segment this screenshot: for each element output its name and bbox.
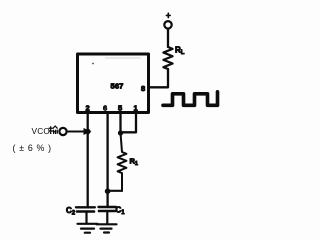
svg-text:VCO: VCO — [32, 126, 51, 136]
wire RL to pin 8 — [150, 69, 168, 87]
node junction at pin-2 wire — [85, 129, 90, 134]
wire VCO terminal to pin-2 wire with arrowhead — [67, 131, 84, 133]
resistor RL — [163, 47, 172, 69]
svg-text:RL: RL — [175, 46, 185, 57]
label VCO input (Chinese) — [32, 126, 58, 136]
svg-text:R1: R1 — [130, 157, 138, 168]
wire R1 bottom to pin-6 wire — [108, 190, 122, 192]
wire pin 5 down — [119, 114, 121, 133]
wire pin 6 down to C1 — [106, 114, 108, 207]
capacitor C2 — [76, 207, 95, 223]
svg-text:6: 6 — [103, 104, 107, 113]
svg-text:2: 2 — [86, 104, 90, 113]
wire supply to RL — [167, 29, 169, 47]
scan speckles — [92, 58, 141, 65]
svg-text:C2: C2 — [66, 206, 76, 217]
node junction pins 5+1 — [118, 130, 123, 135]
ground under C1 — [97, 224, 117, 232]
resistor R1 — [118, 133, 127, 191]
hand-drawn CJK glyph — [48, 126, 57, 134]
output square wave symbol — [163, 92, 218, 106]
node junction on pin-6 wire — [105, 188, 111, 194]
wire pin 2 down to C2 — [87, 114, 89, 207]
ground under C2 — [78, 224, 98, 233]
op-amp U1 567 IC box — [78, 54, 149, 113]
svg-text:567: 567 — [111, 81, 124, 90]
supply terminal V+ — [164, 13, 171, 28]
svg-text:5: 5 — [118, 104, 122, 113]
svg-text:C1: C1 — [116, 206, 126, 217]
svg-text:(±6%): (±6%) — [13, 143, 55, 153]
svg-text:1: 1 — [134, 104, 138, 113]
VCO input terminal — [59, 128, 66, 135]
wire pin 1 down and left to pin-5 node — [121, 114, 136, 132]
svg-text:8: 8 — [141, 84, 145, 93]
capacitor C1 — [99, 207, 117, 223]
